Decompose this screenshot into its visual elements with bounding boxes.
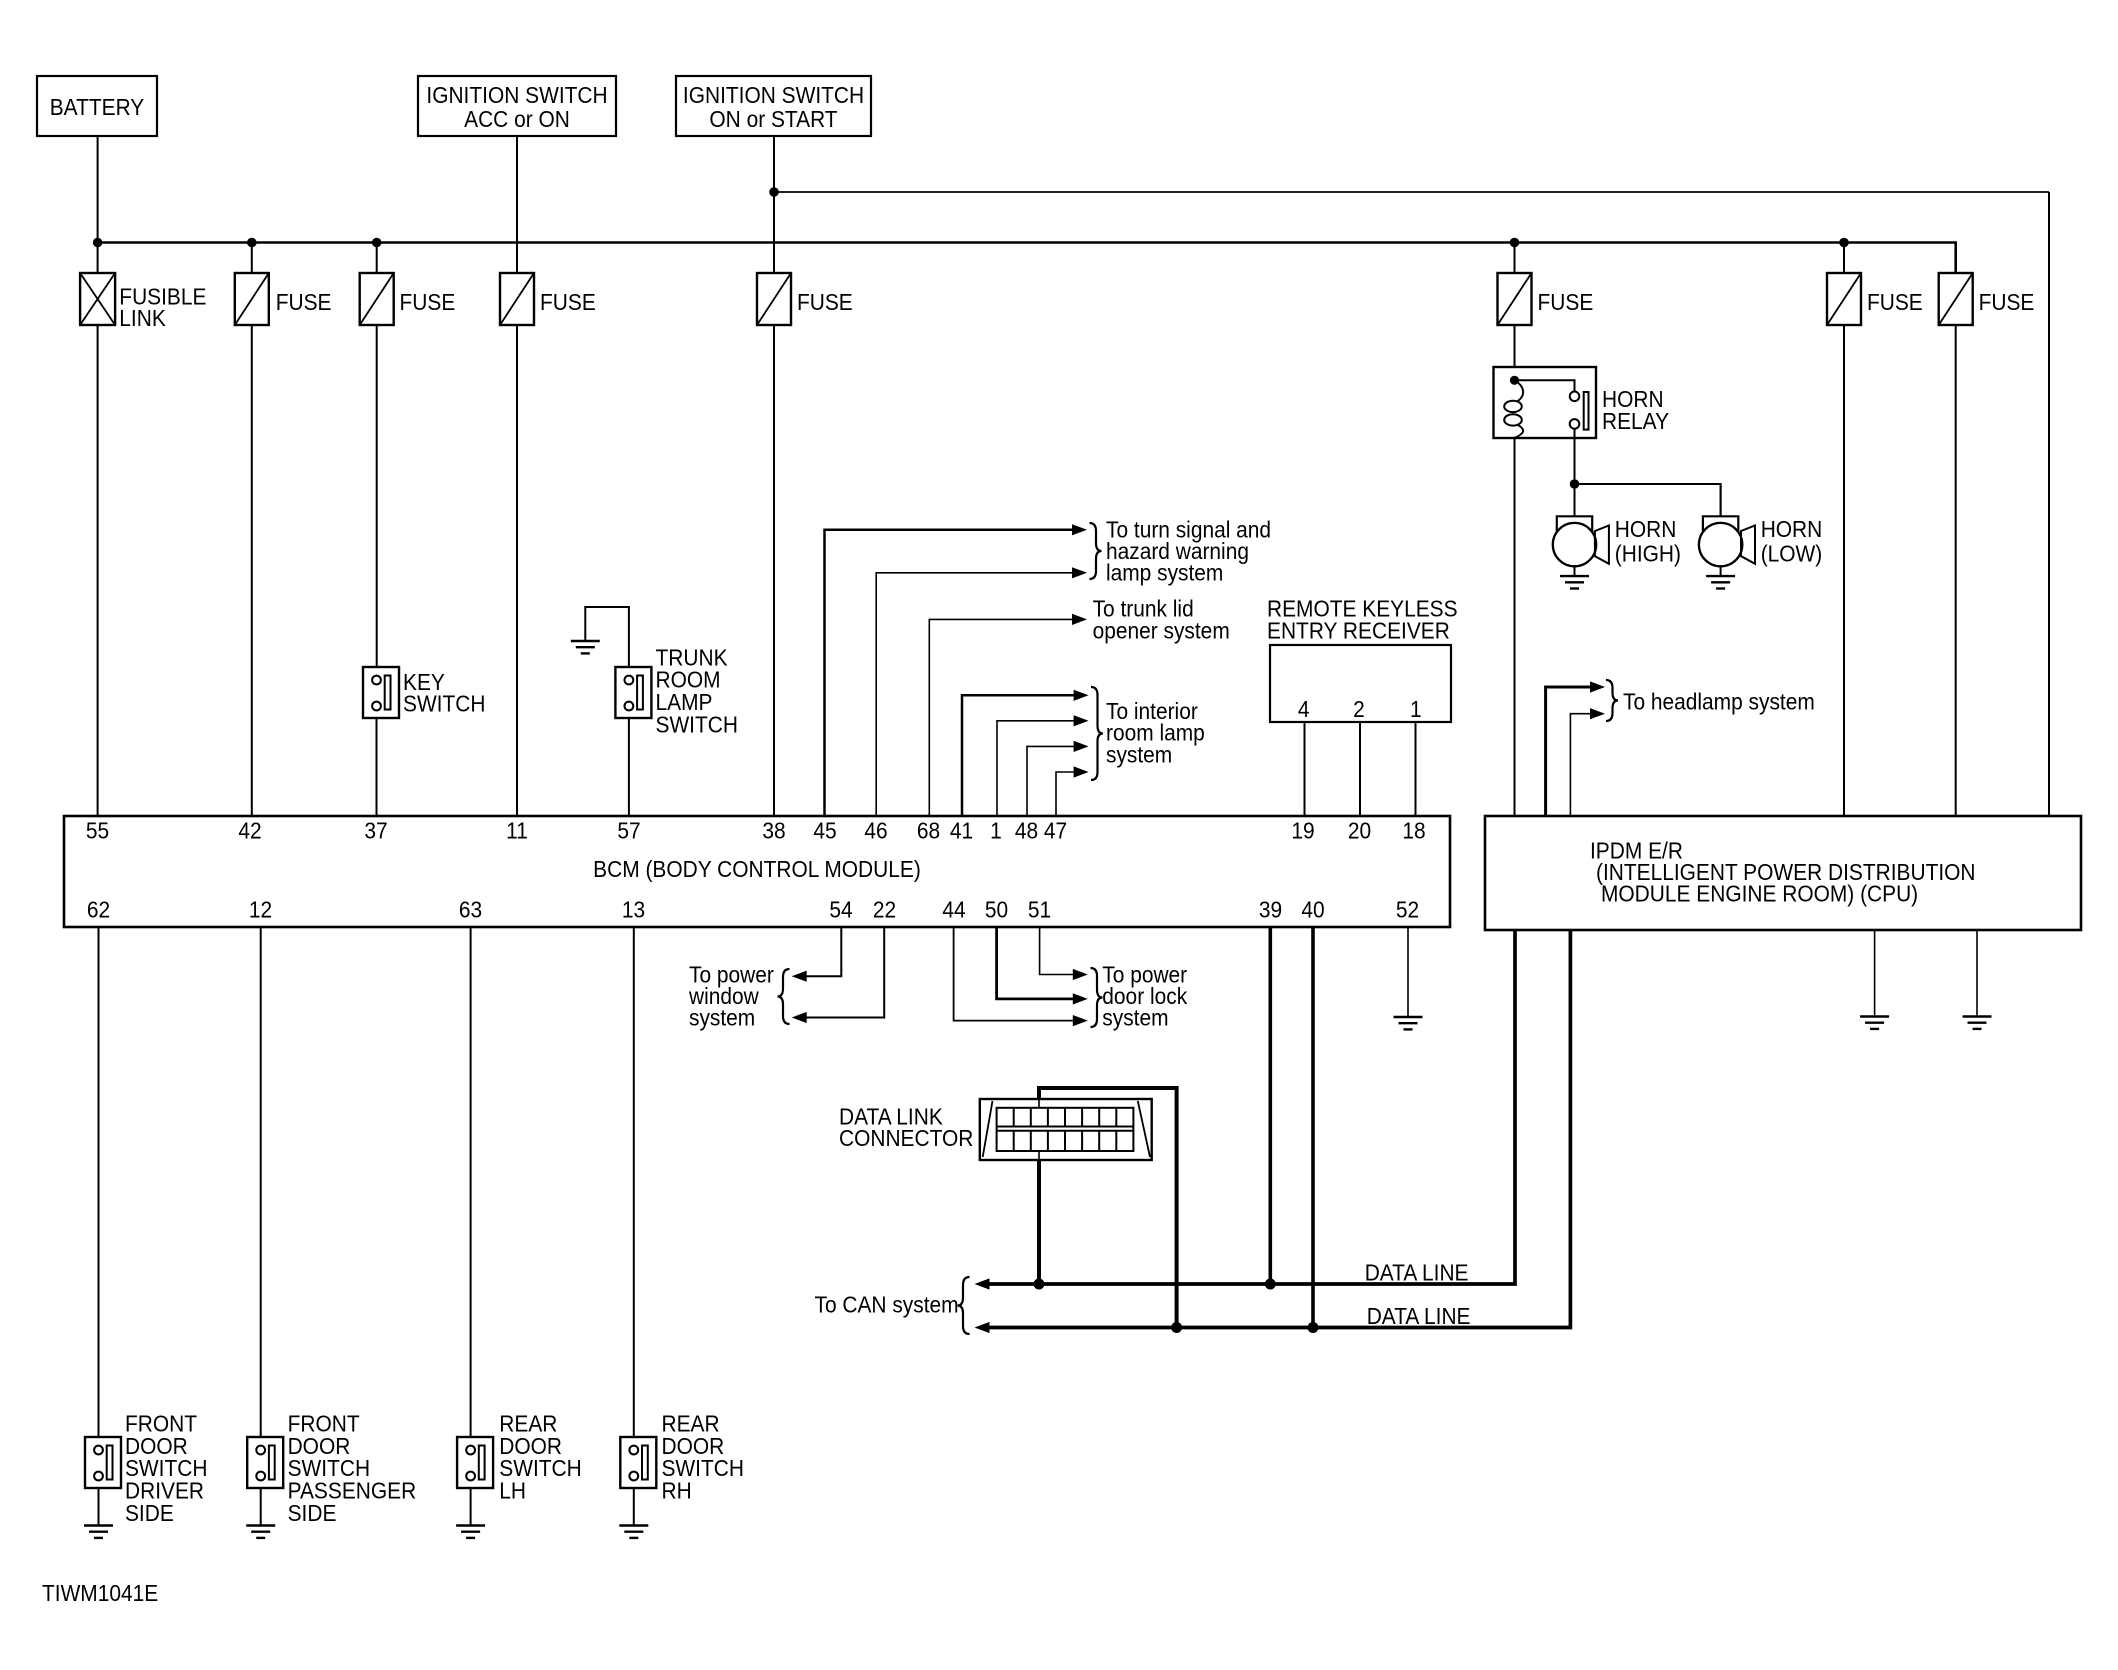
horn relay	[1494, 367, 1597, 438]
svg-text:45: 45	[813, 817, 836, 843]
svg-text:38: 38	[762, 817, 785, 843]
wire switch to ground 1	[98, 1488, 100, 1526]
fusible link	[80, 273, 115, 325]
svg-text:(HIGH): (HIGH)	[1615, 541, 1681, 567]
wire IPDM data line 1	[989, 930, 1515, 1284]
svg-text:57: 57	[617, 817, 640, 843]
wire fuse to BCM pin 42	[251, 325, 253, 816]
horn low	[1720, 484, 1722, 516]
rear door switch RH	[620, 1437, 656, 1488]
svg-text:42: 42	[238, 817, 261, 843]
svg-text:DATA LINE: DATA LINE	[1367, 1303, 1471, 1329]
wire BCM pin 47 to interior lamp	[1056, 772, 1075, 816]
fuse (horn relay)	[1514, 243, 1516, 274]
fuse (BCM 42)	[251, 243, 253, 274]
wire key switch to BCM pin 37	[376, 718, 378, 816]
svg-text:BATTERY: BATTERY	[50, 94, 145, 120]
wire BCM pin 13 to rear door switch RH	[633, 927, 635, 1437]
fuse (BCM 11)	[500, 273, 534, 325]
svg-text:IGNITION SWITCH: IGNITION SWITCH	[683, 82, 864, 108]
node DLC loop junction on data line 2	[1171, 1322, 1182, 1333]
ignition switch ON-or-START box	[676, 76, 871, 136]
svg-text:62: 62	[87, 896, 110, 922]
wire horn relay coil to IPDM	[1514, 438, 1516, 816]
rear door switch LH	[457, 1437, 493, 1488]
node bus junction at fuse 37	[372, 238, 382, 248]
svg-text:48: 48	[1015, 817, 1038, 843]
svg-text:41: 41	[950, 817, 973, 843]
svg-text:52: 52	[1396, 896, 1419, 922]
wire BCM pin 46 to turn signal system	[876, 573, 1073, 816]
svg-text:13: 13	[622, 896, 645, 922]
node bus junction at right fuse	[1839, 238, 1849, 248]
wire BCM pin 54 to power window	[806, 927, 841, 976]
svg-text:40: 40	[1301, 896, 1324, 922]
svg-text:system: system	[689, 1004, 755, 1030]
ground (IPDM 1)	[1860, 1015, 1889, 1017]
wire RKE pin 1 to BCM pin 18	[1415, 722, 1417, 816]
svg-text:37: 37	[364, 817, 387, 843]
fuse (BCM 37)	[376, 243, 378, 274]
svg-text:ON or START: ON or START	[709, 106, 837, 132]
wire BCM pin 12 to front door switch passenger	[260, 927, 262, 1437]
wire IPDM data line 2	[989, 930, 1570, 1328]
ground (rear door switch LH)	[456, 1524, 485, 1526]
wire BCM pin 68 to trunk lid opener	[929, 619, 1073, 816]
svg-text:CONNECTOR: CONNECTOR	[839, 1125, 973, 1151]
wire BCM pin 63 to rear door switch LH	[470, 927, 472, 1437]
horn high	[1574, 484, 1576, 516]
wire fuse to BCM pin 11	[516, 325, 518, 816]
brace headlamp group	[1606, 680, 1618, 721]
svg-text:IGNITION SWITCH: IGNITION SWITCH	[426, 82, 607, 108]
svg-text:47: 47	[1044, 817, 1067, 843]
wire switch to ground 2	[260, 1488, 262, 1526]
svg-text:54: 54	[829, 896, 852, 922]
node ON/START branch junction	[769, 187, 779, 197]
svg-text:2: 2	[1353, 696, 1365, 722]
wire fuse to IPDM top 1	[1843, 325, 1845, 816]
wire BCM pin 57 to trunk switch	[628, 718, 630, 816]
svg-text:lamp system: lamp system	[1106, 560, 1223, 586]
wire fuse to BCM pin 38	[773, 325, 775, 816]
svg-text:DATA LINE: DATA LINE	[1365, 1259, 1469, 1285]
node DLC junction on data line 1	[1034, 1279, 1045, 1290]
svg-text:4: 4	[1298, 696, 1310, 722]
battery bus wire	[98, 243, 1956, 274]
battery box	[37, 76, 157, 136]
svg-text:1: 1	[1410, 696, 1422, 722]
svg-text:SIDE: SIDE	[288, 1500, 337, 1526]
wire BCM pin 62 to front door switch driver	[98, 927, 100, 1437]
brace interior lamp group	[1091, 687, 1103, 780]
node bus-battery junction	[93, 238, 103, 248]
svg-text:63: 63	[459, 896, 482, 922]
wire BCM pin 22 to power window	[806, 927, 884, 1018]
svg-text:50: 50	[985, 896, 1008, 922]
svg-text:system: system	[1102, 1004, 1168, 1030]
svg-text:55: 55	[86, 817, 109, 843]
svg-text:FUSE: FUSE	[276, 289, 332, 315]
trunk room lamp switch	[615, 667, 651, 718]
wire ON/START switch down	[773, 136, 775, 273]
fuse (IPDM battery 2)	[1939, 273, 1973, 325]
wire IPDM to headlamp system 2	[1570, 714, 1591, 816]
wire BCM pin 44 to power door lock	[954, 927, 1074, 1021]
brace power window group	[778, 969, 790, 1024]
svg-text:11: 11	[506, 817, 528, 843]
svg-text:system: system	[1106, 742, 1172, 768]
svg-text:RH: RH	[661, 1478, 691, 1504]
svg-text:46: 46	[864, 817, 887, 843]
svg-text:To headlamp system: To headlamp system	[1623, 688, 1815, 714]
svg-text:FUSE: FUSE	[1867, 289, 1923, 315]
svg-text:12: 12	[249, 896, 272, 922]
brace turn signal group	[1090, 523, 1102, 579]
svg-text:SWITCH: SWITCH	[656, 712, 738, 738]
ground (IPDM 2)	[1963, 1015, 1992, 1017]
wire fuse to IPDM top 2	[1955, 325, 1957, 816]
svg-text:FUSE: FUSE	[1979, 289, 2035, 315]
svg-text:ENTRY RECEIVER: ENTRY RECEIVER	[1267, 617, 1450, 643]
key switch	[363, 667, 399, 718]
svg-text:FUSE: FUSE	[399, 289, 455, 315]
node BCM40 junction on data line 2	[1308, 1322, 1319, 1333]
IPDM E/R box	[1485, 816, 2081, 930]
wire BCM pin 1 to interior lamp	[997, 721, 1075, 816]
wire RKE pin 2 to BCM pin 20	[1359, 722, 1361, 816]
wire BCM pin 48 to interior lamp	[1027, 746, 1075, 816]
wire IPDM ground 2	[1976, 930, 1978, 1017]
wire BCM pin 51 to power door lock	[1040, 927, 1074, 975]
wire RKE pin 4 to BCM pin 19	[1304, 722, 1306, 816]
svg-text:ACC or ON: ACC or ON	[464, 106, 570, 132]
wire BCM pin 40 data line	[1311, 927, 1315, 1328]
svg-text:HORN: HORN	[1761, 516, 1823, 542]
svg-text:BCM (BODY CONTROL MODULE): BCM (BODY CONTROL MODULE)	[593, 856, 921, 882]
wire BCM pin 52 to ground	[1407, 927, 1409, 1017]
fuse (IPDM battery 1)	[1843, 243, 1845, 274]
wire ACC switch to fuse	[516, 136, 518, 273]
node bus junction at horn fuse	[1510, 238, 1520, 248]
front door switch passenger side	[247, 1437, 283, 1488]
wire BCM pin 50 to power door lock	[997, 927, 1074, 999]
svg-text:44: 44	[942, 896, 965, 922]
wire horn relay contact to horns	[1574, 429, 1576, 484]
svg-text:FUSE: FUSE	[540, 289, 596, 315]
svg-text:1: 1	[990, 817, 1002, 843]
svg-text:FUSE: FUSE	[1537, 289, 1593, 315]
ground (passenger door switch)	[246, 1524, 275, 1526]
fuse (BCM 38)	[757, 273, 791, 325]
wire ON/START branch to IPDM	[774, 191, 2049, 193]
wire BCM pin 41 to interior lamp	[962, 695, 1075, 816]
wire trunk switch to ground	[585, 607, 629, 667]
svg-text:HORN: HORN	[1615, 516, 1677, 542]
wire to horn low	[1575, 484, 1721, 516]
wire fuse to key switch	[376, 325, 378, 667]
svg-text:18: 18	[1402, 817, 1425, 843]
node bus junction at fuse 42	[247, 238, 257, 248]
svg-text:FUSE: FUSE	[797, 289, 853, 315]
wire DLC loop to CAN line 2	[1039, 1088, 1177, 1328]
svg-text:51: 51	[1028, 896, 1051, 922]
brace CAN system group	[958, 1277, 970, 1334]
wire fusible link to BCM pin 55	[97, 325, 99, 816]
svg-text:To CAN system: To CAN system	[814, 1291, 958, 1317]
wire IPDM ground 1	[1874, 930, 1876, 1017]
svg-text:LINK: LINK	[119, 305, 166, 331]
svg-text:20: 20	[1348, 817, 1371, 843]
svg-text:opener system: opener system	[1093, 617, 1230, 643]
ground (trunk switch)	[571, 640, 600, 642]
svg-text:68: 68	[917, 817, 940, 843]
svg-text:39: 39	[1259, 896, 1282, 922]
wire BCM pin 39 data line	[1269, 927, 1273, 1284]
wire IPDM to headlamp system 1	[1546, 687, 1591, 816]
data link connector	[980, 1099, 1152, 1160]
front door switch driver side	[85, 1437, 121, 1488]
ground (driver door switch)	[84, 1524, 113, 1526]
wire DLC to CAN line 1	[1037, 1160, 1041, 1284]
wire switch to ground 4	[633, 1488, 635, 1526]
wire switch to ground 3	[470, 1488, 472, 1526]
svg-text:MODULE ENGINE ROOM) (CPU): MODULE ENGINE ROOM) (CPU)	[1601, 880, 1918, 906]
ground (rear door switch RH)	[619, 1524, 648, 1526]
ignition switch ACC-or-ON box	[418, 76, 616, 136]
remote keyless entry receiver box	[1270, 645, 1451, 722]
node BCM39 junction on data line 1	[1265, 1279, 1276, 1290]
svg-text:22: 22	[873, 896, 896, 922]
node horn feed junction	[1570, 479, 1580, 489]
ground (BCM pin 52)	[1394, 1016, 1423, 1018]
svg-text:SWITCH: SWITCH	[403, 691, 485, 717]
svg-text:TIWM1041E: TIWM1041E	[42, 1580, 158, 1606]
svg-text:SIDE: SIDE	[125, 1500, 174, 1526]
svg-text:(LOW): (LOW)	[1761, 541, 1823, 567]
svg-text:RELAY: RELAY	[1602, 408, 1669, 434]
brace power door lock group	[1091, 968, 1103, 1027]
BCM (body control module) box	[64, 816, 1450, 927]
wire BCM pin 45 to turn signal system	[825, 530, 1074, 816]
svg-text:LH: LH	[499, 1478, 526, 1504]
wire battery to bus	[97, 136, 99, 243]
wire fuse to horn relay	[1514, 325, 1516, 367]
svg-text:19: 19	[1291, 817, 1314, 843]
